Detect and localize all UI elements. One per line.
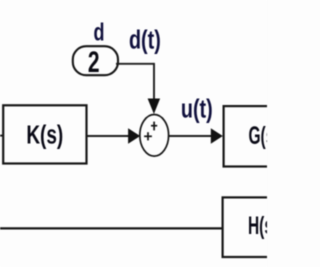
wire stub entering K(s) from left edge	[0, 135, 3, 137]
arrowhead into summing junction (right)	[128, 128, 140, 143]
constant block 2 (stadium)	[73, 46, 118, 75]
svg-text:K(s): K(s)	[26, 120, 63, 150]
block K(s)	[3, 105, 86, 163]
wire summing junction to G(s)	[169, 135, 212, 137]
svg-text:u(t): u(t)	[181, 94, 213, 123]
arrowhead into summing junction (down)	[148, 99, 161, 115]
plus sign (top input)	[151, 122, 157, 131]
feedback wire from H(s) to left edge	[0, 227, 223, 229]
svg-text:2: 2	[88, 47, 100, 79]
wire from block 2 to corner	[116, 63, 154, 65]
summing junction	[140, 115, 169, 157]
svg-text:G(s): G(s)	[248, 122, 267, 150]
wire K(s) to summing junction	[87, 135, 129, 137]
wire down from corner to summing junction	[153, 63, 155, 100]
arrowhead into G(s)	[211, 128, 223, 144]
block H(s) (cut at right edge)	[223, 197, 283, 257]
svg-text:H(s): H(s)	[248, 212, 267, 240]
svg-text:d: d	[94, 18, 105, 47]
plus sign (left input)	[144, 132, 152, 140]
block G(s) (cut at right edge)	[224, 106, 284, 166]
svg-text:d(t): d(t)	[129, 25, 161, 54]
